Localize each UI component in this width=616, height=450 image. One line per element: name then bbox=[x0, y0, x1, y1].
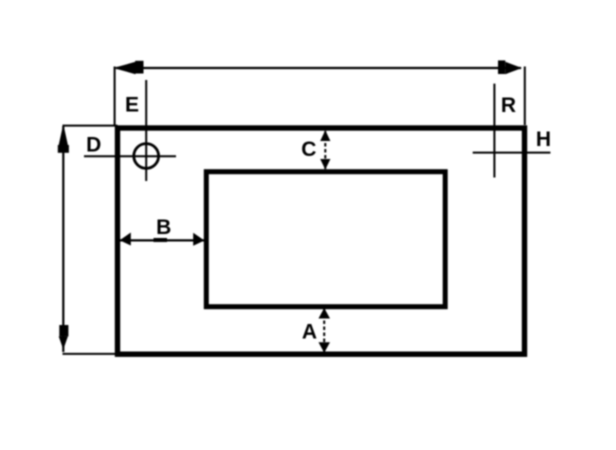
top dimension right extension line bbox=[524, 67, 526, 126]
dimension B line bbox=[120, 239, 204, 241]
svg-text:C: C bbox=[301, 138, 316, 161]
dimension A top arrowhead bbox=[319, 308, 331, 319]
label R bbox=[501, 94, 516, 117]
dimension B thick dash under label bbox=[154, 238, 168, 242]
dimension C line bbox=[324, 131, 326, 169]
svg-text:E: E bbox=[125, 94, 139, 117]
corner mark vertical line (R line) bbox=[493, 84, 495, 178]
svg-text:A: A bbox=[302, 321, 317, 344]
hole horizontal center line (D line) bbox=[84, 155, 176, 157]
dimension B right arrowhead bbox=[193, 233, 204, 246]
left dimension top connector bbox=[63, 125, 118, 127]
inner cutout rectangle bbox=[206, 172, 445, 307]
left dimension bottom arrowhead bbox=[59, 325, 69, 350]
left dimension line bbox=[62, 126, 64, 352]
dimension C bottom arrowhead bbox=[320, 159, 330, 170]
dimension A bottom arrowhead bbox=[319, 342, 331, 353]
label A bbox=[302, 321, 317, 344]
left dimension bottom connector bbox=[63, 353, 119, 355]
top dimension right arrowhead bbox=[498, 60, 522, 74]
label H bbox=[536, 128, 551, 151]
label D bbox=[86, 134, 101, 157]
svg-text:D: D bbox=[86, 134, 101, 157]
label B bbox=[156, 216, 171, 239]
outer plate rectangle bbox=[118, 128, 525, 354]
label E bbox=[125, 94, 139, 117]
hole vertical center line (E line) bbox=[145, 80, 147, 181]
dimension C top arrowhead bbox=[320, 130, 330, 141]
svg-text:H: H bbox=[536, 128, 551, 151]
left dimension top arrowhead bbox=[58, 124, 69, 153]
label C bbox=[301, 138, 316, 161]
dimension B left arrowhead bbox=[120, 233, 131, 246]
top dimension left arrowhead bbox=[113, 61, 143, 74]
hole circle bbox=[134, 144, 159, 169]
top dimension line bbox=[116, 67, 521, 69]
svg-text:R: R bbox=[501, 94, 516, 117]
corner mark horizontal line (H line) bbox=[473, 152, 551, 154]
top dimension left extension line bbox=[114, 67, 116, 126]
svg-text:B: B bbox=[156, 216, 171, 239]
dimension A line bbox=[323, 309, 325, 353]
